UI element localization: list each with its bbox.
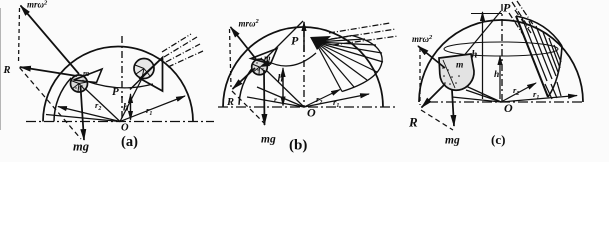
inner arc (b): [239, 58, 262, 105]
vector mr-omega2 (c): [418, 46, 445, 68]
svg-text:(c): (c): [491, 132, 505, 147]
dashed parallelogram diagonal (a): [20, 68, 82, 140]
svg-text:m: m: [456, 61, 463, 71]
svg-text:m: m: [83, 69, 89, 78]
flag triangle on mass (a): [74, 69, 103, 83]
r2 arrow (b): [304, 90, 340, 108]
rays from wedge (a): [162, 34, 203, 67]
flag triangle on mass (b): [251, 49, 277, 65]
P tick (c): [471, 13, 502, 15]
node P (a): [121, 96, 123, 98]
svg-text:O: O: [504, 101, 513, 115]
wedge triangle (a): [140, 58, 163, 92]
P arrow (b): [303, 22, 305, 52]
dashed parallelogram diagonal (b): [232, 91, 264, 123]
rays from wedge (b): [329, 23, 398, 45]
vector mg (b): [263, 70, 266, 125]
dimension h (a): [130, 94, 132, 120]
radius line (b): [257, 87, 304, 107]
dome arc (b): [223, 27, 383, 107]
latitude ellipse (c): [444, 42, 558, 56]
inner line of pouch (c): [443, 60, 455, 88]
wedge dark apex (b): [310, 36, 331, 50]
latitude arc (b): [267, 53, 316, 66]
axis centerline (a): [121, 36, 123, 122]
vertical up arrow (c): [482, 12, 484, 99]
wedge fan lines (b): [316, 36, 384, 92]
axis centerline (c): [501, 4, 503, 102]
svg-text:r: r: [274, 95, 277, 104]
string m to P (b): [265, 21, 303, 59]
mass ball m (a): [71, 75, 88, 92]
svg-text:m: m: [264, 53, 271, 63]
svg-text:mg: mg: [445, 135, 460, 147]
vector R (b): [233, 68, 256, 89]
wedge ball (a): [134, 59, 154, 79]
svg-text:R: R: [408, 115, 418, 130]
radius line O to mass (b): [267, 71, 304, 107]
dashed parallelogram vertical (a): [19, 8, 20, 63]
wedge hatch (c): [522, 18, 561, 99]
svg-text:(a): (a): [121, 134, 138, 150]
wedge left edge (c): [516, 16, 548, 97]
vector mr-omega2 (b): [231, 27, 257, 59]
svg-text:R: R: [226, 97, 234, 108]
baseline (c): [428, 101, 585, 103]
mass ball m (c): [439, 54, 474, 90]
dashed parallelogram diagonal (c): [421, 110, 453, 130]
wedge top edge (c): [516, 16, 562, 46]
radius line shallow (c): [452, 97, 501, 102]
radius line O to wedge ball (a): [120, 77, 143, 122]
vector mg (c): [452, 90, 454, 126]
svg-text:h: h: [278, 74, 284, 85]
svg-text:P: P: [291, 34, 299, 48]
r2 arrow (a): [58, 107, 120, 122]
svg-text:h: h: [494, 70, 499, 80]
svg-text:mg: mg: [261, 134, 276, 146]
radius line O to mass (a): [84, 88, 120, 122]
extra radius line (a): [46, 115, 120, 122]
wedge boundary (b): [342, 36, 382, 92]
dimension h (c): [499, 56, 501, 99]
r1 arrow (a): [120, 96, 185, 122]
dimension h (b): [282, 68, 284, 105]
vector R (c): [422, 84, 446, 108]
svg-text:O: O: [307, 106, 316, 120]
svg-text:O: O: [121, 123, 129, 134]
svg-text:h: h: [123, 103, 129, 114]
dark sector on ball (b): [260, 60, 271, 68]
wedge right edge (c): [548, 46, 562, 97]
inner arc (a): [54, 78, 71, 122]
baseline (b): [218, 106, 396, 108]
svg-text:R: R: [3, 65, 11, 76]
svg-text:mg: mg: [73, 140, 89, 154]
r1 arrow (b): [304, 94, 369, 107]
mass ball m (b): [252, 59, 268, 75]
vector mg (a): [81, 86, 85, 140]
wedge hypotenuse extension (a): [130, 58, 163, 90]
dome arc (a): [43, 47, 193, 122]
vector mr-omega2 (a): [21, 6, 80, 75]
vector R (a): [20, 67, 77, 76]
svg-text:(b): (b): [289, 138, 307, 154]
rays to wedge (c): [509, 1, 534, 36]
svg-text:h: h: [472, 50, 478, 61]
radius line O to mass (c): [457, 82, 501, 102]
latitude arc (a): [86, 81, 153, 88]
dome arc (c): [419, 20, 583, 102]
radius line shallow (b): [247, 97, 304, 107]
r1 arrow (c): [501, 96, 577, 103]
axis centerline (b): [303, 30, 305, 107]
string m to P (c): [452, 11, 501, 70]
dashed parallelogram vertical (c): [419, 48, 421, 105]
baseline (a): [26, 121, 214, 123]
radius line (c): [466, 90, 501, 102]
r2 arrow (c): [501, 83, 536, 102]
dashed parallelogram vertical (b): [230, 29, 232, 87]
svg-text:P: P: [503, 1, 511, 15]
svg-text:P: P: [112, 86, 119, 98]
